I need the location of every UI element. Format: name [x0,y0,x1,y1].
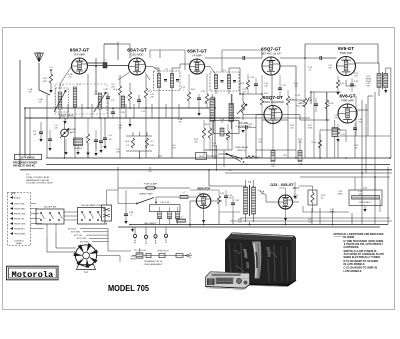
svg-text:FRONT BLU: FRONT BLU [14,229,25,231]
svg-text:ON-OFF SW: ON-OFF SW [44,207,57,209]
svg-text:IN OHMS.: IN OHMS. [344,236,356,239]
svg-text:540 KC TO 1600 KC: 540 KC TO 1600 KC [13,165,35,168]
svg-text:Motorola: Motorola [12,270,54,280]
svg-text:C-22: C-22 [354,81,360,83]
svg-text:R-13: R-13 [329,103,335,105]
svg-text:EXT BLK: EXT BLK [68,228,77,230]
svg-text:6SK7-GT: 6SK7-GT [70,48,90,53]
svg-text:OSC-MOD: OSC-MOD [131,52,144,56]
svg-text:R-14: R-14 [340,83,346,85]
svg-text:R-11: R-11 [205,124,210,126]
svg-text:NOTES:: NOTES: [334,232,344,236]
svg-text:JACK: JACK [69,131,75,134]
svg-text:CARTRIDGE.: CARTRIDGE. [344,246,360,249]
svg-text:I-F AMP: I-F AMP [192,53,202,57]
svg-text:PWR AMP: PWR AMP [340,51,353,55]
svg-text:TUNER GANG: TUNER GANG [58,115,74,118]
svg-text:I.F. = 455 KC: I.F. = 455 KC [21,156,35,159]
svg-text:6V6-GT: 6V6-GT [338,46,354,51]
svg-text:FRONT ORN: FRONT ORN [14,214,26,216]
svg-text:PHONO-RADIO SW: PHONO-RADIO SW [81,204,102,207]
svg-text:DET AVC 1st A-F: DET AVC 1st A-F [261,51,281,55]
svg-text:DIAL LAMPS: DIAL LAMPS [144,222,156,225]
svg-text:SPKR PLUG: SPKR PLUG [157,251,169,253]
svg-text:FRONT GRN: FRONT GRN [14,224,26,226]
svg-text:1M: 1M [295,85,298,87]
svg-text:6SK7-GT: 6SK7-GT [187,49,207,54]
svg-text:SWITCH: SWITCH [237,150,246,152]
svg-text:TONE CONTROL AT AT: TONE CONTROL AT AT [26,176,50,179]
svg-text:SPKR FIELD: SPKR FIELD [359,202,371,204]
svg-text:FUSE 14 AMP: FUSE 14 AMP [144,182,158,185]
svg-text:22K: 22K [121,112,125,114]
svg-text:EXT RED: EXT RED [80,242,89,244]
svg-text:C-15: C-15 [250,77,256,79]
svg-text:C-39 C-40: C-39 C-40 [160,202,170,204]
svg-text:HEAD: HEAD [16,242,22,245]
svg-text:EXT GRN: EXT GRN [71,232,80,234]
svg-text:← USED ASSEMBLY: ← USED ASSEMBLY [142,263,164,266]
svg-text:PWR AMP: PWR AMP [341,98,354,102]
svg-text:FRONT YEL: FRONT YEL [14,219,25,221]
svg-text:6SQ7-GT: 6SQ7-GT [261,47,281,52]
svg-text:EXT YEL: EXT YEL [74,235,83,237]
svg-text:SPEAKER CKT. A: SPEAKER CKT. A [144,260,162,263]
svg-text:470K: 470K [308,127,313,129]
svg-text:VOLUME CONTROL HIGH: VOLUME CONTROL HIGH [26,183,53,185]
svg-text:10MF: 10MF [337,193,343,195]
svg-text:VOL CONT: VOL CONT [296,106,307,108]
svg-text:IN LATE MODELS.: IN LATE MODELS. [344,263,366,266]
svg-text:LATE MODELS.: LATE MODELS. [344,270,363,273]
svg-text:P.U. COIL No: P.U. COIL No [134,250,147,252]
svg-text:MODEL 705: MODEL 705 [108,283,149,293]
svg-text:BASS: BASS [298,102,304,105]
svg-text:CONTROL: CONTROL [14,241,25,243]
svg-text:EXT ORN: EXT ORN [77,238,86,240]
svg-text:1M: 1M [179,121,182,123]
svg-text:6V6-GT: 6V6-GT [339,94,355,99]
svg-text:MINIMUM AT PLACING: MINIMUM AT PLACING [26,179,49,182]
svg-text:OZ4⇔6X5-GT: OZ4⇔6X5-GT [270,183,294,187]
svg-text:SPKR: SPKR [130,259,136,261]
svg-text:SPARK PLATE: SPARK PLATE [139,193,153,196]
svg-text:47K: 47K [43,81,47,83]
svg-text:WHEN ELECTRICALLY TUNED.: WHEN ELECTRICALLY TUNED. [344,256,381,259]
svg-text:AUDIO INVERTER: AUDIO INVERTER [262,100,284,104]
svg-text:FRONT BRN: FRONT BRN [14,234,26,236]
svg-text:TONE RELAY: TONE RELAY [235,146,249,149]
svg-text:LIGHT GRN: LIGHT GRN [14,204,25,206]
svg-text:R-F AMP: R-F AMP [74,52,85,56]
svg-text:BLACK: BLACK [14,197,21,200]
svg-text:C-17: C-17 [282,85,288,87]
svg-text:C-11: C-11 [201,91,206,93]
svg-text:FRONT RED: FRONT RED [14,209,26,211]
svg-text:RECT: RECT [293,187,300,190]
